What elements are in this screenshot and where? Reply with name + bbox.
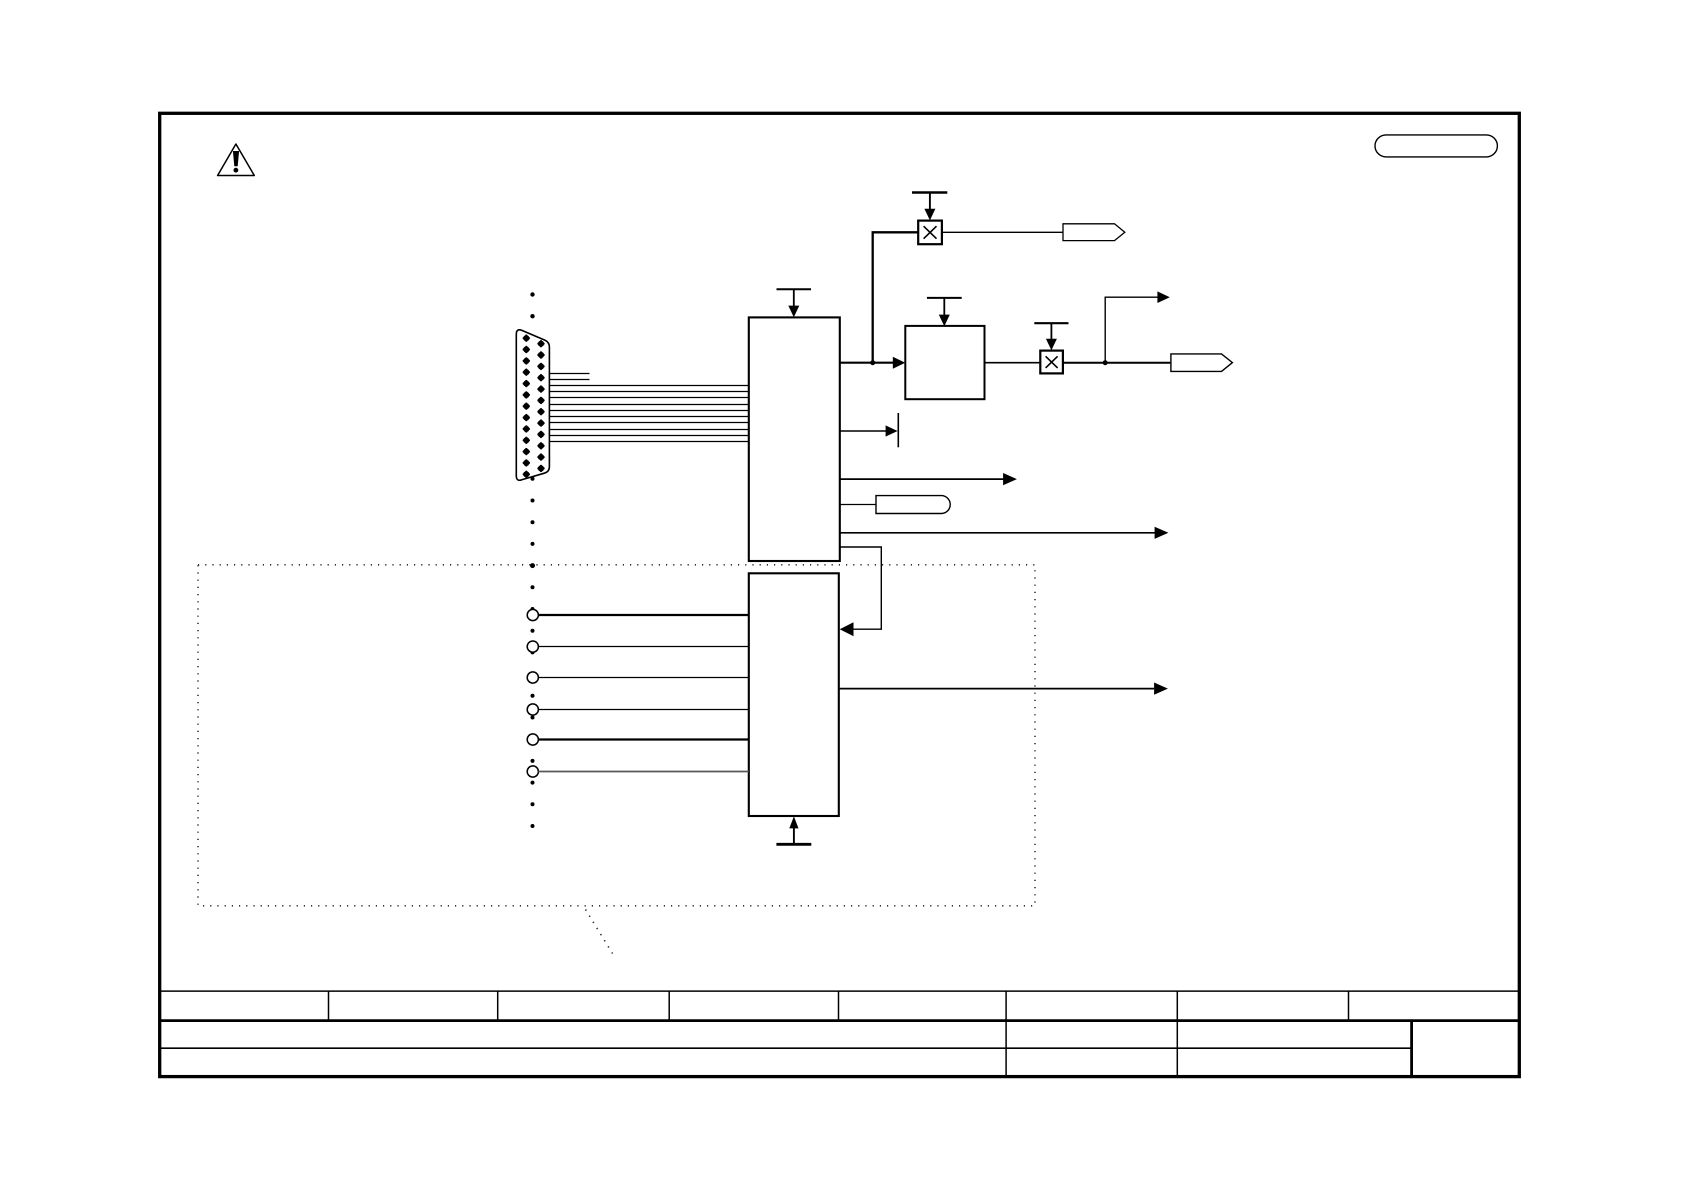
dotted leader line (586, 910, 613, 954)
title block row1 divider e (1005, 991, 1007, 1021)
wire U1 arrow output 2 (840, 478, 1004, 480)
wire U1 out to U3 (thick) (840, 362, 894, 364)
warning triangle (218, 144, 255, 176)
wire U2 arrow output (839, 688, 1154, 690)
middle box U3 (905, 326, 984, 399)
wire input y=678 (538, 677, 748, 679)
ground G1 above U1 (777, 289, 812, 317)
wires: connector stubs (549, 373, 589, 375)
wire J1 riser to M1 (873, 232, 918, 362)
wire J2 up-right arrow (1105, 297, 1158, 363)
connector pins column 1 (523, 335, 545, 479)
block U2 (lower) (749, 573, 839, 816)
input circle node y=678 (527, 672, 538, 683)
node J2 (1103, 360, 1108, 365)
ground G2 above U3 (927, 298, 962, 326)
feedback wire U1 to U2 (840, 547, 882, 629)
dotted continuation column (530, 292, 535, 828)
title block row separator (160, 1047, 1412, 1049)
input circle node y=771 (527, 766, 538, 777)
wire input y=709 (538, 709, 748, 711)
connector X1 (DB25) (516, 330, 549, 480)
title block lower divider a (1005, 1021, 1007, 1077)
wire M2 to flag F2 (thick) (1063, 362, 1171, 364)
wire input y=740 (538, 738, 748, 740)
input circle node y=740 (527, 734, 538, 745)
flag F1 (1063, 224, 1125, 241)
ground G5 below U2 (776, 816, 811, 844)
title block row1 divider a (328, 991, 330, 1021)
dotted option rectangle (198, 565, 1035, 906)
wire input y=615 (538, 614, 748, 616)
wire M1 to flag F1 (942, 231, 1063, 233)
title block row1 divider c (668, 991, 670, 1021)
input circle node y=709 (527, 704, 538, 715)
title block top line (160, 990, 1520, 992)
multiplier X-box M2 (1040, 351, 1063, 374)
wire U1 tick output (840, 430, 887, 432)
title block row1 divider g (1348, 991, 1350, 1021)
wire U1 to rounded flag F3 (840, 504, 876, 506)
wires: connector to block U1 (549, 386, 748, 442)
block U1 (upper) (749, 317, 840, 561)
wire U1 arrow output 3 (840, 532, 1155, 534)
ground G4 above M2 (1034, 323, 1068, 350)
input circle node y=647 (527, 641, 538, 652)
border frame (160, 113, 1520, 1076)
title block row1 divider b (497, 991, 499, 1021)
title block row1 divider f (1176, 991, 1178, 1021)
ground G3 above M1 (912, 193, 947, 221)
title block row1 divider d (838, 991, 840, 1021)
wire input y=771 (538, 771, 748, 773)
wire U3 to M2 (985, 362, 1041, 364)
title block corner box (1410, 1021, 1413, 1077)
multiplier X-box M1 (918, 221, 942, 245)
wire input y=647 (538, 646, 748, 648)
top-right pill label box (1375, 135, 1497, 157)
title block lower divider b (1176, 1021, 1178, 1077)
input circle node y=615 (527, 609, 538, 620)
node J1 (870, 360, 875, 365)
rounded flag F3 (876, 496, 950, 514)
title block thick separator (160, 1019, 1520, 1022)
flag F2 (1171, 354, 1233, 372)
